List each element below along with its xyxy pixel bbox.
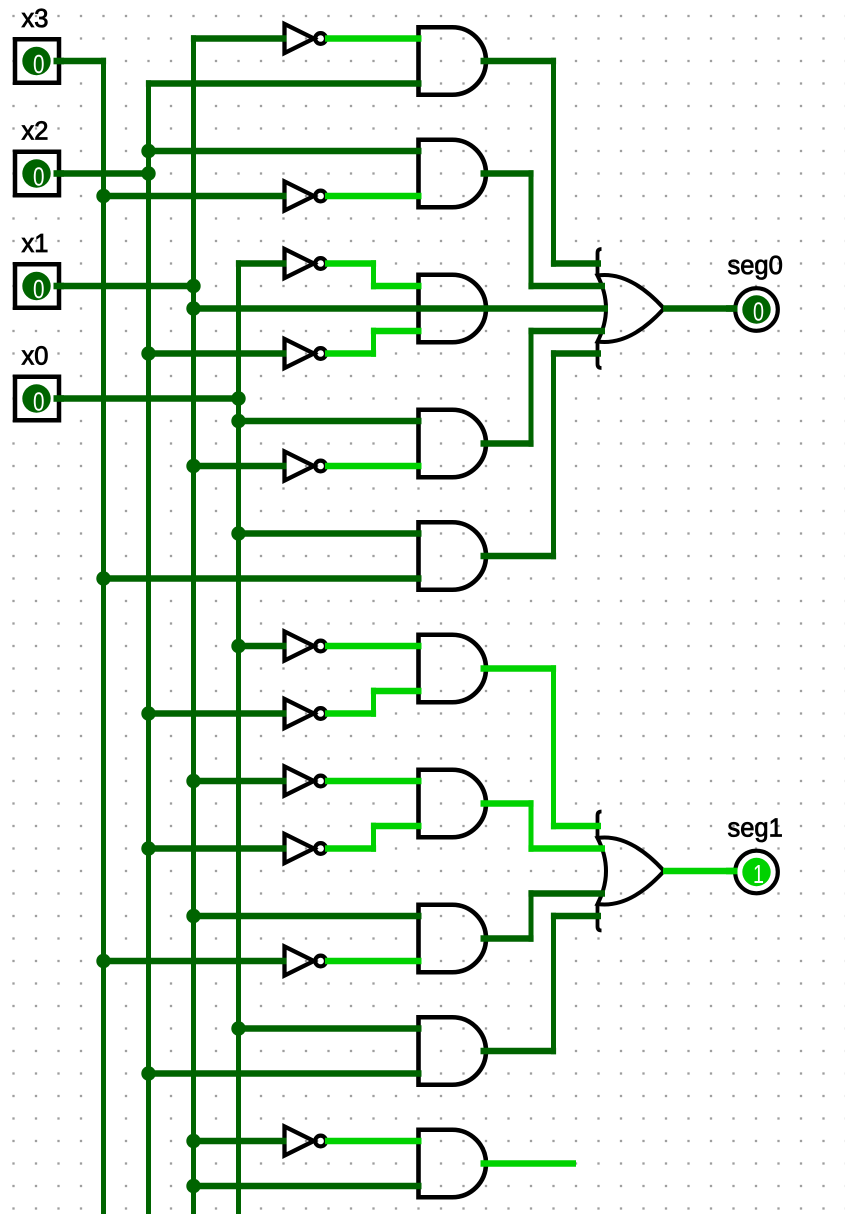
svg-text:0: 0 <box>33 49 45 79</box>
svg-text:x3: x3 <box>22 5 49 33</box>
svg-text:1: 1 <box>753 859 764 889</box>
svg-text:0: 0 <box>33 162 45 192</box>
svg-text:0: 0 <box>33 387 45 417</box>
svg-text:x0: x0 <box>22 343 49 371</box>
svg-text:seg0: seg0 <box>728 252 783 280</box>
svg-text:x1: x1 <box>22 230 49 258</box>
svg-text:x2: x2 <box>22 118 49 146</box>
svg-text:0: 0 <box>753 297 764 327</box>
svg-text:seg1: seg1 <box>728 815 783 843</box>
svg-text:0: 0 <box>33 274 45 304</box>
